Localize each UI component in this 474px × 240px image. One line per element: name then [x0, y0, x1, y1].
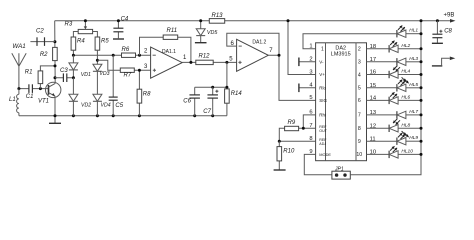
- op-amp DA1.2: [237, 39, 269, 71]
- LED HL10: [367, 153, 390, 155]
- wire JP1 to LED bus: [350, 21, 421, 175]
- svg-text:R10: R10: [283, 149, 295, 155]
- svg-text:L1: L1: [9, 97, 16, 103]
- svg-text:VD5: VD5: [207, 30, 218, 36]
- inductor L1: [18, 89, 20, 95]
- svg-text:8: 8: [358, 126, 361, 132]
- resistor R8: [138, 70, 140, 116]
- resistor R2: [53, 47, 58, 60]
- resistor R6: [122, 53, 136, 57]
- jumper JP1: [332, 171, 350, 179]
- capacitor C3: [55, 77, 73, 79]
- resistor R9: [279, 128, 315, 141]
- svg-text:HL4: HL4: [401, 69, 410, 75]
- svg-text:C1: C1: [26, 94, 34, 100]
- svg-text:V+: V+: [319, 72, 325, 77]
- wire pin9 MODE to JP1: [304, 154, 332, 174]
- wire net B jog to pin3: [97, 60, 150, 70]
- resistor R7: [120, 68, 134, 72]
- svg-text:VD1: VD1: [81, 72, 91, 78]
- svg-text:C2: C2: [36, 29, 44, 35]
- wire DA1.2 feedback: [227, 33, 279, 55]
- ground: [54, 116, 56, 123]
- svg-text:JP1: JP1: [334, 166, 344, 172]
- svg-text:5: 5: [358, 86, 361, 92]
- resistor R13: [209, 19, 224, 24]
- svg-text:OUT: OUT: [319, 129, 327, 133]
- LED HL5: [367, 87, 397, 89]
- svg-text:C3: C3: [60, 68, 68, 74]
- svg-text:R13: R13: [211, 13, 223, 19]
- LED HL2: [367, 48, 390, 50]
- svg-text:HL10: HL10: [401, 148, 413, 154]
- resistor R14: [225, 89, 230, 103]
- svg-text:1: 1: [183, 55, 187, 61]
- svg-text:C4: C4: [121, 16, 129, 22]
- resistor R4: [71, 37, 76, 50]
- resistor R1: [40, 66, 55, 89]
- LED HL8: [367, 127, 390, 129]
- svg-text:R4: R4: [77, 39, 85, 45]
- zener VD5: [200, 21, 202, 43]
- capacitor C7 electrolytic: [212, 87, 214, 116]
- capacitor C5: [112, 55, 114, 115]
- svg-text:R8: R8: [143, 92, 151, 98]
- svg-text:R6: R6: [122, 47, 130, 53]
- resistor R12: [196, 60, 213, 64]
- capacitor C1: [28, 84, 30, 93]
- svg-text:5: 5: [309, 95, 312, 101]
- svg-text:ADJ: ADJ: [319, 142, 326, 146]
- resistor R5: [95, 37, 100, 50]
- svg-text:7: 7: [269, 48, 273, 54]
- svg-text:C5: C5: [115, 103, 123, 109]
- svg-text:9: 9: [358, 139, 361, 145]
- svg-text:Rhi: Rhi: [319, 113, 326, 118]
- resistor R11 feedback: [140, 37, 191, 62]
- svg-text:1: 1: [321, 47, 324, 53]
- svg-text:DA1.2: DA1.2: [252, 39, 266, 45]
- wire pin8 REF ADJ: [279, 140, 315, 142]
- svg-text:HL1: HL1: [409, 28, 418, 34]
- ground pin2 V-: [299, 61, 315, 63]
- svg-text:C6: C6: [183, 99, 191, 105]
- capacitor C4: [117, 21, 119, 39]
- resistor R10: [278, 141, 280, 169]
- svg-text:R9: R9: [288, 120, 296, 126]
- op-amp DA1.1: [151, 47, 183, 78]
- wire base node row: [19, 88, 49, 90]
- wire net A to pin2: [73, 54, 150, 56]
- svg-text:C7: C7: [203, 109, 211, 115]
- capacitor C2: [30, 41, 55, 43]
- svg-text:HL9: HL9: [409, 135, 418, 141]
- svg-text:2: 2: [358, 47, 361, 53]
- svg-text:HL6: HL6: [401, 94, 410, 100]
- svg-text:Rlo: Rlo: [319, 86, 326, 91]
- svg-text:R2: R2: [40, 52, 48, 58]
- LED HL3: [367, 61, 397, 63]
- capacitor C8 electrolytic: [436, 21, 438, 43]
- svg-text:WA1: WA1: [12, 43, 25, 50]
- svg-text:R11: R11: [167, 28, 178, 34]
- LED HL4: [367, 74, 390, 76]
- svg-text:5: 5: [229, 56, 233, 62]
- diode VD4: [96, 101, 98, 115]
- diode VD1: [72, 55, 74, 77]
- ground arrow out: [432, 65, 442, 67]
- node A vertical R14/C6/C7: [195, 62, 227, 89]
- svg-text:VT1: VT1: [38, 98, 49, 104]
- svg-text:3: 3: [144, 64, 148, 70]
- LED HL9: [367, 140, 397, 142]
- wire pin1 to HL1: [303, 34, 397, 49]
- svg-text:R3: R3: [65, 21, 73, 27]
- svg-text:10: 10: [356, 152, 362, 158]
- svg-text:R12: R12: [199, 54, 211, 60]
- svg-text:6: 6: [358, 98, 361, 104]
- svg-text:2: 2: [144, 48, 148, 54]
- svg-text:HL3: HL3: [409, 56, 418, 62]
- ground pin4 Rlo: [299, 87, 315, 89]
- svg-text:4: 4: [358, 72, 361, 78]
- svg-text:VD3: VD3: [99, 71, 109, 77]
- trimmer R3: [78, 29, 92, 33]
- diode VD3: [96, 60, 98, 94]
- diode VD2: [72, 78, 74, 116]
- svg-text:HL8: HL8: [401, 122, 410, 128]
- LED HL7: [367, 114, 397, 116]
- svg-text:DA1.1: DA1.1: [162, 49, 176, 55]
- transistor VT1: [46, 82, 61, 97]
- capacitor C6: [194, 87, 196, 116]
- svg-text:VD4: VD4: [101, 102, 111, 108]
- wire mid rail: [19, 115, 227, 117]
- svg-text:R5: R5: [101, 39, 109, 45]
- wire pin6 Rhi to pin7: [303, 115, 315, 128]
- svg-text:C8: C8: [444, 29, 452, 35]
- svg-text:LM3915: LM3915: [331, 51, 351, 57]
- svg-text:R1: R1: [25, 70, 33, 76]
- svg-text:HL2: HL2: [401, 43, 410, 49]
- svg-text:HL5: HL5: [409, 82, 418, 88]
- svg-text:R14: R14: [231, 91, 243, 97]
- LED HL6: [367, 99, 390, 101]
- wire pin3 V+ to rail: [288, 21, 316, 75]
- +9V supply arrow: [450, 19, 456, 23]
- svg-text:VD2: VD2: [81, 102, 91, 108]
- wire VT1 collector column: [54, 61, 56, 116]
- LED HL1: [406, 33, 421, 35]
- svg-text:V-: V-: [319, 60, 324, 65]
- svg-text:SIG: SIG: [319, 98, 327, 103]
- svg-text:R7: R7: [124, 73, 132, 79]
- svg-text:3: 3: [358, 60, 361, 66]
- svg-text:7: 7: [358, 113, 361, 119]
- svg-text:HL7: HL7: [409, 109, 418, 115]
- wire DA1.1 output: [182, 61, 236, 63]
- svg-text:+9B: +9B: [444, 13, 455, 19]
- IC DA2 LM3915: [316, 43, 367, 161]
- svg-text:MODE: MODE: [319, 152, 331, 157]
- wire DA1.2 output to SIG: [268, 55, 315, 100]
- antenna WA1: [12, 53, 26, 88]
- wire top rail: [55, 21, 452, 48]
